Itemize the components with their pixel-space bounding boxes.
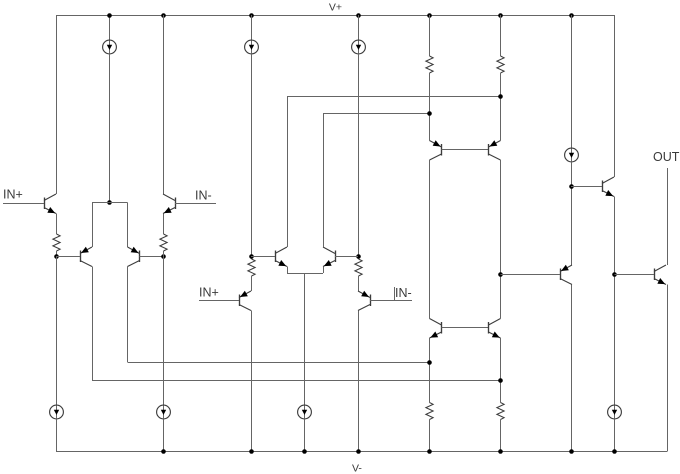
resistor R5 xyxy=(426,403,433,420)
wire node C to Q7 base xyxy=(251,256,275,258)
node V+ junction x251 xyxy=(249,13,254,18)
transistor Q10 xyxy=(488,144,490,156)
svg-text:IN+: IN+ xyxy=(3,188,23,202)
wire Q14 emitter to I8 xyxy=(614,197,616,406)
resistor R4 xyxy=(497,56,504,73)
wire R1 to node A xyxy=(56,251,58,256)
wire R3 to Q9 emitter xyxy=(429,73,431,141)
wire node A to Q3 base xyxy=(56,256,80,258)
wire Q1 emitter to R1 xyxy=(56,214,58,235)
node quad left lower junction xyxy=(427,360,432,365)
node quad right junction xyxy=(498,94,503,99)
wire box2 bar xyxy=(287,273,323,275)
wire R8 to Q6 emitter xyxy=(358,276,360,291)
node V- junction x163 xyxy=(161,449,166,454)
wire Q4 base to node B xyxy=(140,256,164,258)
node V+ junction x500 xyxy=(498,13,503,18)
wire Q8 collector up xyxy=(323,113,325,247)
current source I2 xyxy=(251,40,253,54)
current source I8 xyxy=(614,405,616,419)
transistor Q13 xyxy=(560,269,562,281)
node box1 junction xyxy=(107,200,112,205)
wire Q1 collector to V+ xyxy=(56,15,58,194)
node C junction xyxy=(249,254,254,259)
wire R5 to V- xyxy=(429,420,431,452)
svg-text:OUT: OUT xyxy=(653,150,680,164)
wire Q13 collector to V- xyxy=(571,285,573,452)
wire IN+ to Q5 base xyxy=(199,300,239,302)
node V+ junction x163 xyxy=(161,13,166,18)
wire node A to I5 xyxy=(56,256,58,406)
transistor Q4 xyxy=(139,251,141,263)
transistor Q1 xyxy=(44,198,46,210)
node E junction xyxy=(569,184,574,189)
wire OUT stub xyxy=(667,168,669,265)
transistor Q15 xyxy=(654,269,656,281)
resistor R2 xyxy=(160,234,167,251)
node V+ junction x429 xyxy=(427,13,432,18)
node V- junction x358 xyxy=(356,449,361,454)
wire Q9 base join xyxy=(442,149,489,151)
svg-text:IN-: IN- xyxy=(195,189,212,203)
wire Q4 collector down xyxy=(127,267,129,363)
node V+ junction x571 xyxy=(569,13,574,18)
wire V+ to R3 xyxy=(429,15,431,56)
node V- junction x304 xyxy=(302,449,307,454)
node B junction xyxy=(161,254,166,259)
wire R6 to V- xyxy=(500,420,502,452)
wire box1 right leg xyxy=(127,203,129,248)
wire V+ to Q14 collector xyxy=(614,15,616,177)
wire V+ to I4 xyxy=(571,15,573,149)
wire I8 to V- xyxy=(614,419,616,452)
wire Q5 collector to V- xyxy=(251,311,253,452)
wire node E to Q14 base xyxy=(571,186,602,188)
node V- junction x429 xyxy=(427,449,432,454)
current source I1 xyxy=(109,40,111,54)
transistor Q11 xyxy=(441,322,443,334)
wire box1 bar xyxy=(92,202,128,204)
current source I7 xyxy=(304,405,306,419)
node F junction xyxy=(612,272,617,277)
transistor Q6 xyxy=(370,295,372,307)
transistor Q12 xyxy=(488,322,490,334)
node quad right mid junction xyxy=(498,272,503,277)
wire V+ to I2 xyxy=(251,15,253,41)
wire Q8 emitter to box2 xyxy=(323,267,325,274)
transistor Q2 xyxy=(175,198,177,210)
transistor Q14 xyxy=(602,181,604,193)
transistor Q9 xyxy=(441,144,443,156)
transistor Q3 xyxy=(80,251,82,263)
wire IN+ to Q1 base xyxy=(3,203,44,205)
resistor R7 xyxy=(248,259,255,276)
wire Q10 collector to Q12 xyxy=(500,160,502,319)
wire I2 to node C xyxy=(251,54,253,260)
transistor Q7 xyxy=(275,251,277,263)
transistor Q5 xyxy=(239,295,241,307)
wire Q7 emitter to box2 xyxy=(287,267,289,274)
wire V- rail xyxy=(56,451,667,453)
wire I5 to V- xyxy=(56,419,58,452)
wire V+ to R4 xyxy=(500,15,502,56)
wire Q8 collector cross to quad xyxy=(323,113,430,115)
current source I6 xyxy=(163,405,165,419)
wire Q7 collector cross to quad xyxy=(287,96,501,98)
resistor R3 xyxy=(426,56,433,73)
wire Q15 emitter to V- xyxy=(667,285,669,452)
wire IN- to Q6 base xyxy=(370,300,412,302)
wire Q3 collector down xyxy=(92,267,94,381)
wire R2 to node B xyxy=(163,251,165,256)
wire box1 left leg xyxy=(92,203,94,248)
wire V+ to I3 xyxy=(358,15,360,41)
wire Q4 collector cross to quad xyxy=(128,362,430,364)
current source I3 xyxy=(358,40,360,54)
wire Q8 base to node D xyxy=(335,256,358,258)
node V- junction x500 xyxy=(498,449,503,454)
wire Q3 collector cross to quad xyxy=(92,380,501,382)
wire R4 to Q10 emitter xyxy=(500,73,502,141)
node D junction xyxy=(356,254,361,259)
wire I6 to V- xyxy=(163,419,165,452)
wire Q2 collector to V+ xyxy=(163,15,165,194)
wire Q7 collector up xyxy=(287,96,289,247)
wire Q11 emitter to R5 xyxy=(429,338,431,403)
wire I4 to Q13 emitter xyxy=(571,162,573,266)
node V+ junction x109 xyxy=(107,13,112,18)
wire node F to Q15 base xyxy=(615,274,655,276)
current source I5 xyxy=(56,405,58,419)
resistor R8 xyxy=(355,259,362,276)
node quad left junction xyxy=(427,111,432,116)
transistor Q8 xyxy=(335,251,337,263)
node V- junction x571 xyxy=(569,449,574,454)
wire Q6 collector to V- xyxy=(358,311,360,452)
wire Q12 emitter to R6 xyxy=(500,338,502,403)
wire V+ rail xyxy=(56,15,615,17)
wire R7 to Q5 emitter xyxy=(251,276,253,291)
resistor R1 xyxy=(53,234,60,251)
svg-text:IN-: IN- xyxy=(395,286,412,300)
node A junction xyxy=(54,254,59,259)
wire I1 to box1 bar xyxy=(109,54,111,203)
current source I4 xyxy=(571,148,573,162)
wire IN- stub tick xyxy=(394,287,396,300)
wire box2 stem xyxy=(304,273,306,406)
wire IN- to Q2 base xyxy=(175,203,216,205)
wire I7 to V- xyxy=(304,419,306,452)
wire Q2 emitter to R2 xyxy=(163,214,165,235)
wire quad to Q13 base xyxy=(501,274,561,276)
resistor R6 xyxy=(497,403,504,420)
wire I3 to node D xyxy=(358,54,360,260)
svg-text:IN+: IN+ xyxy=(199,286,219,300)
svg-text:V-: V- xyxy=(352,463,362,474)
node quad right lower junction xyxy=(498,378,503,383)
wire Q11 base join xyxy=(442,327,489,329)
node V- junction x614 xyxy=(612,449,617,454)
svg-text:V+: V+ xyxy=(329,2,342,14)
wire node B to I6 xyxy=(163,256,165,406)
node V+ junction x358 xyxy=(356,13,361,18)
node V- junction x251 xyxy=(249,449,254,454)
wire V+ to I1 xyxy=(109,15,111,41)
wire Q9 collector to Q11 xyxy=(429,160,431,319)
